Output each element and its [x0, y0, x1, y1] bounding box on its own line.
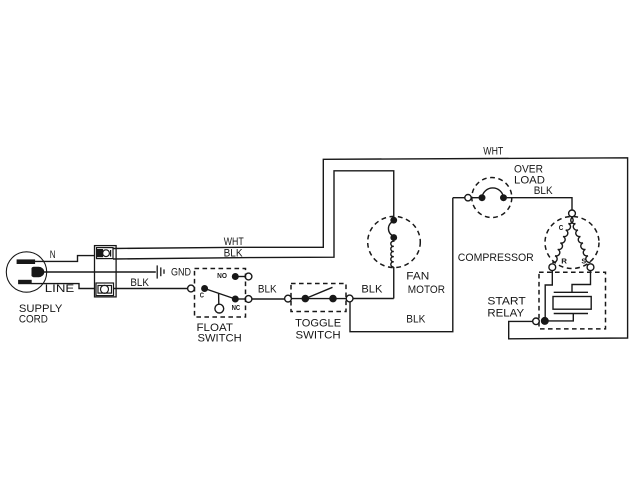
toggle switch blade	[305, 287, 332, 298]
compressor R terminal circle	[549, 264, 556, 271]
toggle switch internal wire	[291, 298, 346, 300]
svg-text:TOGGLE: TOGGLE	[295, 318, 341, 330]
compressor S terminal circle	[587, 264, 594, 271]
overload element arc	[482, 188, 504, 198]
toggle switch right contact dot	[329, 295, 337, 303]
svg-text:GND: GND	[171, 266, 191, 278]
fan motor protector arc	[388, 222, 393, 236]
connector top crimp	[97, 248, 114, 259]
plug neutral blade	[17, 259, 35, 264]
connector bottom crimp	[96, 283, 114, 296]
svg-text:MOTOR: MOTOR	[408, 284, 445, 296]
fan motor M1	[368, 216, 421, 267]
toggle switch left contact dot	[302, 295, 310, 303]
float switch blade	[205, 289, 236, 300]
relay wire from R	[545, 271, 552, 317]
ground symbol	[157, 265, 164, 278]
start relay RL1	[539, 272, 606, 329]
svg-text:NC: NC	[232, 303, 241, 312]
wire LINE: plug to connector	[32, 284, 95, 289]
relay lower plate	[554, 313, 588, 315]
wire N: plug to connector	[35, 256, 95, 262]
relay coil box	[553, 297, 591, 310]
relay upper plate	[554, 291, 588, 293]
svg-text:BLK: BLK	[361, 284, 383, 296]
svg-text:S: S	[581, 257, 586, 266]
svg-text:COMPRESSOR: COMPRESSOR	[458, 252, 534, 264]
svg-text:BLK: BLK	[224, 247, 244, 259]
compressor C terminal circle	[569, 210, 576, 217]
svg-text:C: C	[559, 223, 564, 232]
toggle switch S1	[291, 284, 346, 312]
float switch NC terminal circle	[245, 296, 252, 303]
fan motor top dot	[390, 217, 397, 224]
overload OL1	[472, 178, 512, 218]
wire ground: plug pin to GND symbol	[44, 271, 156, 273]
svg-text:SWITCH: SWITCH	[198, 333, 242, 345]
svg-text:FAN: FAN	[406, 270, 429, 282]
svg-text:N: N	[50, 249, 56, 261]
overload right contact dot	[500, 194, 507, 201]
svg-text:C: C	[200, 291, 205, 300]
float switch NC contact dot	[232, 296, 239, 303]
svg-text:WHT: WHT	[483, 146, 503, 158]
overload left wire	[453, 197, 465, 199]
wire BLK: connector to float switch	[114, 288, 188, 290]
wire BLK: float switch to toggle switch	[252, 298, 285, 300]
fan motor lower dot	[390, 234, 397, 241]
float switch C contact dot	[201, 285, 208, 292]
toggle switch right terminal circle	[346, 295, 353, 302]
relay external terminal circle	[533, 318, 540, 325]
svg-text:LINE: LINE	[45, 283, 75, 295]
overload left contact dot	[479, 194, 486, 201]
svg-text:SWITCH: SWITCH	[296, 329, 341, 341]
svg-text:NO: NO	[217, 271, 227, 280]
float switch NO contact dot	[232, 273, 239, 280]
svg-text:R: R	[561, 257, 567, 266]
wire WHT: connector to top right to start relay	[113, 158, 628, 339]
svg-text:CORD: CORD	[19, 313, 48, 325]
float switch FS1	[195, 269, 246, 318]
svg-text:RELAY: RELAY	[487, 308, 524, 320]
fan motor lead down	[393, 267, 395, 299]
relay junction dot	[541, 317, 549, 325]
svg-text:BLK: BLK	[406, 314, 426, 326]
overload left lead	[471, 197, 478, 199]
float switch actuator circle	[215, 304, 224, 313]
float switch NC wire	[239, 298, 246, 300]
overload left terminal circle	[465, 195, 471, 201]
svg-text:WHT: WHT	[224, 236, 244, 248]
compressor run winding right	[571, 217, 591, 262]
svg-text:BLK: BLK	[534, 185, 553, 197]
wire BLK: toggle to fan motor junction	[353, 298, 394, 300]
relay lower lead	[549, 314, 574, 321]
float switch NO wire	[239, 276, 246, 278]
wire BLK: toggle down and right to overload riser	[350, 198, 453, 332]
wire BLK pair: connector to fan motor top	[113, 171, 394, 259]
relay wire from S	[572, 271, 591, 293]
svg-text:BLK: BLK	[130, 277, 149, 289]
float switch NO terminal circle	[245, 273, 252, 280]
svg-text:BLK: BLK	[258, 283, 277, 295]
toggle switch left terminal circle	[285, 295, 292, 302]
wire BLK: overload to compressor C	[507, 198, 572, 210]
svg-text:START: START	[487, 296, 526, 308]
float switch C terminal circle	[188, 285, 195, 292]
supply cord plug P1	[6, 252, 46, 292]
plug ground pin	[32, 267, 45, 277]
float switch actuator stem	[218, 293, 220, 304]
compressor start winding left	[552, 217, 573, 262]
plug line blade	[18, 280, 32, 284]
fan motor winding	[391, 240, 394, 267]
compressor CP1	[545, 217, 599, 269]
connector block J1	[95, 246, 117, 297]
